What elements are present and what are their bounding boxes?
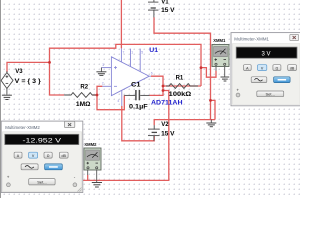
svg-text:Multimeter-XMM2: Multimeter-XMM2 [5,125,40,130]
XMM2 button Set [29,179,55,185]
svg-text:3 V: 3 V [261,52,270,58]
wire op-amp output to C1 right lead [150,76,164,95]
svg-text:XMM1: XMM1 [213,38,226,43]
svg-text:4: 4 [117,99,119,103]
node A junction [48,61,51,64]
wire V3 top lead to node A [7,62,50,72]
svg-text:R1: R1 [176,75,184,81]
XMM2 button DC [45,164,63,170]
ground at supply net [206,120,216,127]
XMM1 button A [244,65,252,71]
resistor R1 [166,84,198,89]
wire node C to inverting input [97,86,102,95]
svg-text:2: 2 [102,82,104,86]
wire node D jog to ground net [211,100,216,119]
node C junction [96,94,99,97]
wire output node down to XMM2 plus [75,91,169,181]
output node junction 2 [162,89,165,92]
ground at XMM2 minus [92,183,102,188]
XMM2 display [5,134,79,144]
svg-text:XMM2: XMM2 [84,142,97,147]
svg-text:V2: V2 [161,122,169,128]
svg-text:C1: C1 [131,83,141,89]
svg-text:6: 6 [151,72,153,76]
ground below V3 [2,95,12,99]
svg-text:+: + [7,175,10,180]
XMM2 button dB [59,152,68,158]
output node junction 1 [162,85,165,88]
XMM2 resize grip [78,188,82,192]
XMM2 button AC [21,164,38,170]
wire XMM2 plus stub [87,175,89,180]
wire node B to XMM1 plus terminal [201,68,216,78]
wire V1 minus down to node D [154,17,211,119]
svg-text:dB: dB [61,154,66,158]
multimeter panel XMM1 window [231,33,301,106]
XMM2 button A [14,152,22,158]
wire R1 row [163,85,201,87]
multimeter panel XMM2 window [1,121,83,192]
wire node C down to C1 left lead [97,95,124,110]
resistor R2 [64,93,97,98]
wire node A up and across to node B [50,44,202,67]
XMM1 button V [258,65,267,71]
source V1 [148,0,158,17]
op-amp U1 [101,48,151,106]
ground at XMM1 minus [221,77,230,81]
source V2 [148,125,160,141]
XMM2 button ohm [44,152,52,158]
capacitor C1 [124,90,149,100]
svg-text:1: 1 [131,51,133,55]
XMM1 button ohm [273,65,281,71]
wire V- run to V2 bottom [122,110,154,141]
XMM1 display [236,47,297,58]
svg-text:dB: dB [290,66,295,70]
wire node A down to R2 left lead [50,62,65,95]
svg-text:V = { 3 }: V = { 3 } [15,79,42,85]
svg-text:Set...: Set... [37,179,46,184]
wire node B down to R1 right lead [200,68,202,86]
XMM1 button DC [274,77,291,83]
wire R2 right to node C [92,94,97,96]
svg-text:15 V: 15 V [161,132,174,138]
svg-text:3: 3 [102,63,104,67]
svg-text:-12.952 V: -12.952 V [23,138,63,145]
svg-text:100kΩ: 100kΩ [169,92,192,98]
svg-text:Ω: Ω [276,66,279,70]
XMM2 button V [29,152,38,158]
svg-text:5: 5 [141,51,143,55]
XMM1 button Set [257,91,284,97]
wire pin 4 connector [121,106,123,110]
svg-text:15 V: 15 V [161,8,174,14]
svg-text:AD711AH: AD711AH [151,100,183,106]
wire V1 plus supply to pin 7 [120,0,122,48]
svg-text:V1: V1 [161,0,169,5]
svg-text:+: + [236,87,239,92]
XMM1 button AC [251,77,267,83]
ground at non-inverting input [96,68,106,76]
svg-text:1MΩ: 1MΩ [76,102,91,108]
node D junction [209,99,212,102]
source V3 [1,71,13,95]
svg-text:Ω: Ω [47,154,50,158]
wire V2 top to ground net [154,120,215,126]
svg-text:7: 7 [123,51,125,55]
svg-text:R2: R2 [80,85,88,91]
svg-text:U1: U1 [149,48,159,54]
svg-text:V3: V3 [15,69,23,75]
XMM1 button dB [288,65,297,71]
svg-text:Set...: Set... [266,91,275,96]
node B junction [200,66,203,69]
multimeter XMM1 icon [212,38,229,77]
svg-text:Multimeter-XMM1: Multimeter-XMM1 [234,36,269,41]
svg-text:0.1µF: 0.1µF [129,104,148,110]
multimeter XMM2 icon [84,142,101,182]
